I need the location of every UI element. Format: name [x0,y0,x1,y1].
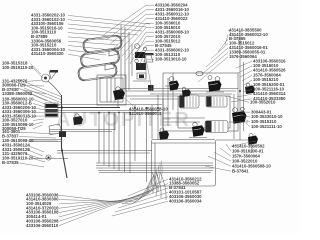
leader left-L1 1 [30,63,41,74]
leader top-left 2 [68,20,146,27]
brake chamber C3 [205,121,228,133]
leader top-center 1 [102,5,154,36]
leader bottom-left-F 1 [59,179,151,204]
safety valve cluster [133,44,150,81]
leader right-D 6 [205,166,231,171]
leader left-L2 2 [27,85,44,87]
pipe joint block [59,131,66,137]
leader left-L4 6 [26,154,42,159]
leader left-L4 4 [27,145,44,152]
svg-text:100-3521111-10: 100-3521111-10 [251,124,282,129]
small valve near dryer [73,114,83,125]
leader left-L3 4 [33,112,45,113]
pipe loop below reservoirs [97,75,126,105]
air filter funnel [144,53,154,62]
leader top-center 3 [110,14,154,44]
hand brake valve left [33,155,68,160]
compressor [42,70,62,95]
air reservoir 1 [82,34,123,53]
leader right-A 1 [228,30,240,42]
valve E center [159,128,169,140]
leader top-left 3 [68,24,142,31]
leader 100-3552010 [227,96,249,102]
svg-text:В-37841: В-37841 [232,168,249,173]
leader right-B 6 [246,85,252,88]
svg-text:431410-3560320: 431410-3560320 [31,51,64,56]
leader bottom-left-F 2 [59,176,153,202]
leader right-D 4 [214,152,231,161]
vertical feeder pipes [99,105,135,173]
leader bottom-right-E 3 [122,188,168,204]
leader top-left 7 [68,41,118,45]
pipe loop center-right [163,73,238,131]
leader right-B 8 [237,94,252,97]
leader top-center 12 [146,55,154,78]
leader central-1 [122,96,135,107]
leader right-A 2 [225,35,228,45]
leader top-left 1 [68,15,150,24]
pipe top horizontal pair [120,89,238,95]
leader left-L1 2 [33,68,43,78]
svg-text:100-3552010: 100-3552010 [250,100,276,105]
svg-text:431910-3560014: 431910-3560014 [129,111,162,116]
leader left-L3 2 [33,103,45,107]
svg-text:433106-3560110: 433106-3560110 [26,223,59,228]
leader right-C 1 [243,111,250,113]
leader top-center 5 [118,23,154,52]
leader bottom-right-E 5 [115,197,168,212]
air reservoir 3 [77,62,118,81]
leader right-B 5 [244,80,252,85]
leader right-B 3 [240,71,252,77]
leader top-center 4 [114,19,154,48]
pipe bundle upper [45,105,162,113]
leader right-B 2 [238,66,252,73]
leader bottom-left-F 3 [59,174,154,204]
leader left-L4 7 [33,159,45,163]
valve V2 relay [206,76,224,93]
pipe sweep bundle from left [18,80,62,106]
pipe junction fittings [61,89,241,152]
leader bottom-left-F 5 [59,169,157,213]
svg-text:403106-3560034: 403106-3560034 [169,198,202,203]
leader left-L4 1 [20,132,56,134]
svg-text:100-3519110-20: 100-3519110-20 [2,65,34,70]
leader bottom-right-E 2 [125,184,168,200]
two-section brake valve V3 [229,107,248,124]
leader left-L2 1 [28,80,42,81]
leader left-L4 5 [27,150,43,156]
leader top-left 8 [68,46,112,51]
gauge oval [196,71,203,75]
pipe fitting dark square [148,85,154,91]
leader bottom-right-E 4 [118,192,168,208]
leader right-D 5 [208,156,231,166]
leader right-A 5 [206,48,228,67]
leader left-L2 3 [22,90,46,94]
leader right-C 3 [244,119,250,122]
brake valve in loop [113,87,125,107]
leader left-L3 3 [33,108,45,110]
svg-text:В-37835: В-37835 [2,160,19,165]
leader top-center 6 [122,28,154,56]
frame outline rectangle [152,140,216,187]
leader top-left 10 [68,54,100,60]
leader right-D 2 [226,144,231,151]
leader top-left 6 [68,37,124,41]
leader right-A 3 [218,39,228,52]
leader top-center 9 [133,41,154,55]
heavy horizontal pipe [45,107,120,109]
brake chamber A [179,95,199,108]
leader right-D 1 [231,141,256,146]
leader right-B 1 [236,61,252,68]
leader bottom-left-F 8 [59,161,162,226]
leader left-L3 1 [33,99,45,104]
leader left-L3 5 [33,115,44,117]
leader left-L4 2 [19,137,56,139]
leader right-B 4 [242,75,252,81]
leader top-center 8 [130,37,154,64]
leader left-L4 8 [19,163,44,167]
leader bottom-right-E 6 [112,201,168,216]
leader bottom-left-F 4 [59,171,156,208]
leader right-C 2 [240,115,250,117]
valve on chamber A [182,87,191,97]
leader top-left 9 [68,50,106,55]
pipe verticals near frame [147,105,153,182]
leader right-B 7 [243,89,252,92]
pipes reservoir outlets [121,25,132,90]
valve V4 trailer coupling [216,134,258,154]
leader right-A 6 [202,52,228,74]
leader right-A 7 [198,57,228,82]
leader right-B 9 [231,99,252,102]
svg-text:100-3513010-10: 100-3513010-10 [155,56,187,61]
leader bottom-right-E 1 [128,179,168,196]
reservoir brackets [105,48,118,70]
leader top-center 2 [106,10,154,40]
leader left-L3 8 [33,125,42,129]
leader right-D 3 [220,148,231,156]
brake chamber C1 [206,96,227,107]
pipe bottom curve bundle [152,172,166,200]
valve V5 on frame [189,122,207,137]
leader top-center 13 [146,59,154,90]
leader top-left 5 [68,33,128,37]
valve V1 front brake [165,77,179,91]
dark bracket lower-left [49,124,61,135]
pipe bundle lower [57,151,214,173]
leader left-L3 7 [33,122,43,125]
leader bottom-left-F 7 [59,163,160,221]
leader right-A 4 [211,44,228,59]
leader right-C 4 [246,123,250,127]
heavy vertical pipe [62,95,68,178]
pipe mid horizontals [30,112,115,142]
leader left-L4 3 [28,140,58,142]
leader top-left 4 [68,28,138,35]
air reservoir 2 [80,49,121,68]
leader top-center 7 [126,32,154,60]
leader left-L2 4 [31,94,47,101]
leader left-L3 6 [33,119,44,120]
air dryer [45,103,58,117]
leader top-center 11 [139,50,154,66]
valve VB near list B [245,83,255,94]
frame drop pipes [148,186,158,194]
leader bottom-left-F 6 [59,166,159,217]
leader top-center 10 [136,46,154,60]
pipe right verticals [234,30,244,140]
